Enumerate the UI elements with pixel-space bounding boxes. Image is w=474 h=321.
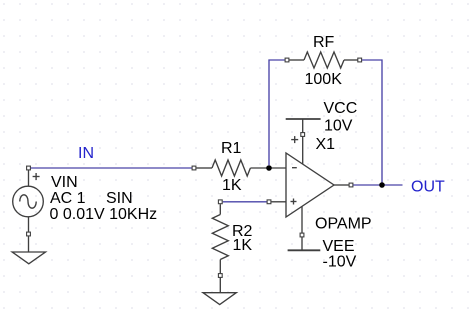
terminal square noninverting input (267, 200, 271, 204)
wire op-amp output to terminal (334, 184, 349, 186)
svg-text:RF: RF (313, 34, 335, 51)
AC source VIN (13, 170, 44, 252)
terminal square R2 top (218, 200, 222, 204)
terminal square VIN bottom (27, 232, 31, 236)
op-amp X1 (286, 153, 334, 217)
svg-text:0 0.01V 10KHz: 0 0.01V 10KHz (50, 206, 158, 223)
svg-text:IN: IN (78, 145, 94, 162)
terminal square VIN top (27, 166, 31, 170)
VCC rail (286, 119, 321, 164)
wire IN (31, 167, 192, 169)
svg-text:SIN: SIN (106, 190, 133, 207)
terminal square VCC pin (301, 133, 305, 137)
svg-text:-10V: -10V (323, 254, 357, 271)
svg-text:AC 1: AC 1 (50, 190, 86, 207)
svg-text:VIN: VIN (51, 174, 78, 191)
terminal square VEE pin (300, 233, 304, 237)
terminal square R1 left (192, 166, 196, 170)
wire output (353, 184, 402, 186)
terminal square RF left (285, 58, 289, 62)
terminal square R2 bottom (218, 274, 222, 278)
wire R2 to noninverting input (223, 201, 267, 203)
svg-text:R1: R1 (221, 140, 242, 157)
ground (source) (12, 252, 45, 264)
svg-text:1K: 1K (233, 237, 253, 254)
svg-text:VCC: VCC (324, 100, 358, 117)
svg-text:OPAMP: OPAMP (315, 216, 372, 233)
svg-text:100K: 100K (305, 71, 343, 88)
wire feedback right (RF down to output) (362, 60, 382, 185)
svg-text:OUT: OUT (411, 179, 445, 196)
wire into plus input (271, 201, 286, 203)
junction output (379, 182, 385, 188)
VEE rail (288, 206, 321, 250)
resistor R1 (196, 160, 286, 176)
svg-text:1K: 1K (222, 177, 242, 194)
resistor R2 (212, 204, 228, 292)
svg-text:X1: X1 (316, 136, 336, 153)
junction at inverting input node (266, 165, 272, 171)
svg-text:10V: 10V (324, 118, 353, 135)
resistor RF (289, 52, 357, 68)
svg-text:VEE: VEE (323, 238, 355, 255)
terminal square RF right (358, 58, 362, 62)
ground (R2) (203, 293, 236, 305)
terminal square output (349, 183, 353, 187)
wire feedback left (up from junction to RF) (269, 60, 285, 165)
